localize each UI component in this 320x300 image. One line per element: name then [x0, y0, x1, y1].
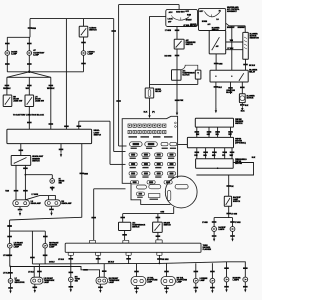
flasher box — [145, 88, 154, 98]
wire LF indicator ground — [8, 287, 13, 289]
connector tick — [212, 221, 217, 223]
wire LH headlamp ground — [18, 209, 23, 211]
svg-text:LAMP: LAMP — [11, 53, 17, 56]
connector tick — [77, 125, 82, 127]
svg-text:INDICATOR: INDICATOR — [15, 281, 26, 284]
wire fuse block bottom drop — [173, 207, 175, 214]
wire below courtesy lamp — [28, 55, 30, 72]
lamp RH tail stop turn — [161, 277, 176, 286]
connector tick — [8, 255, 13, 257]
wire wiper wires 1 — [196, 127, 198, 137]
wire washer return loop — [196, 163, 253, 176]
svg-text:WHT/BLK: WHT/BLK — [3, 88, 11, 90]
wire marker column — [9, 220, 11, 243]
connector tick — [27, 122, 32, 124]
svg-text:(P): (P) — [152, 112, 155, 114]
connector tab — [157, 252, 162, 255]
headlight dimmer switch — [11, 156, 31, 166]
wire lo beam — [15, 165, 17, 199]
ground license lamp — [195, 290, 197, 293]
connector tick — [91, 217, 96, 219]
connector tick — [7, 236, 12, 238]
svg-text:OFF: OFF — [199, 11, 202, 13]
fuse block slot A — [137, 185, 147, 189]
svg-text:SWITCH: SWITCH — [212, 29, 219, 31]
ignition switch box — [166, 9, 198, 26]
ground rear marker C — [244, 289, 246, 292]
connector tick — [5, 85, 10, 87]
ground backup LH — [213, 239, 215, 242]
wire park lamp feeds — [33, 267, 35, 278]
wire blower TAN — [226, 41, 243, 43]
svg-text:LAMP: LAMP — [177, 281, 183, 284]
wire ignition top feed — [178, 5, 180, 10]
wire ignition feed left — [150, 15, 166, 17]
wire wiper wires 2 — [196, 148, 198, 159]
wire fuse block bottom run — [123, 213, 174, 215]
connector tab — [90, 240, 96, 243]
wiper motor box — [187, 137, 233, 147]
fuse row 1 — [129, 153, 176, 159]
wire pressure switch down — [176, 49, 178, 114]
svg-text:LAMP: LAMP — [147, 281, 153, 284]
svg-text:MOTOR: MOTOR — [235, 163, 242, 165]
lamp cargo — [81, 51, 86, 56]
svg-text:ORN: ORN — [32, 28, 37, 30]
connector tick — [156, 217, 161, 219]
wire end arrow — [176, 113, 178, 116]
svg-text:LAMP: LAMP — [14, 246, 20, 249]
connector tick — [156, 235, 161, 237]
wire LH tail ground — [134, 288, 139, 290]
connector tick — [80, 173, 85, 175]
fuse block tab holes — [175, 122, 177, 124]
lamp rear marker B — [224, 277, 229, 282]
wire RH marker drop — [44, 231, 46, 243]
ground stub — [60, 154, 62, 157]
svg-text:FLASHER: FLASHER — [203, 248, 212, 251]
svg-text:GRN: GRN — [212, 155, 215, 157]
wire drop DK GRN — [158, 255, 160, 263]
svg-text:DK GRN: DK GRN — [165, 55, 172, 57]
wire below LH marker — [9, 248, 11, 267]
connector tick — [175, 55, 180, 57]
washer pump box — [196, 159, 234, 168]
wire AC compressor drop — [122, 214, 124, 223]
wire end arrow — [215, 110, 217, 113]
wire dome branch — [7, 36, 30, 38]
fuse block slot B — [149, 185, 161, 189]
connector tick — [28, 27, 33, 29]
node bus junction — [159, 263, 161, 265]
lamp LH front marker — [8, 243, 13, 248]
wire fuse block to wiper — [178, 144, 188, 146]
wire turn bus A — [32, 262, 226, 264]
svg-text:JAMB SW: JAMB SW — [13, 100, 22, 103]
ground rear marker B — [225, 289, 227, 292]
wire turn bus drop — [31, 231, 33, 264]
connector tick WHT/BLK — [27, 63, 32, 65]
connector tick — [23, 168, 28, 170]
svg-text:START: START — [186, 19, 193, 22]
ground backup RH — [231, 239, 233, 242]
AC pressure switch — [174, 39, 184, 49]
wire marker B ground — [224, 286, 229, 288]
wire cargo lamp down — [83, 55, 85, 72]
svg-text:RUN: RUN — [187, 14, 192, 16]
ground RH turn indicator — [70, 289, 72, 292]
svg-text:LAMPS: LAMPS — [218, 228, 225, 231]
lamp backup LH — [212, 227, 217, 232]
wire dome feed top — [30, 18, 114, 20]
switch cargo lamp — [79, 26, 88, 37]
ground blower motor — [241, 108, 243, 111]
ground RH tail lamp — [165, 291, 167, 294]
switch LH door jamb — [25, 95, 34, 107]
connector tick — [116, 100, 121, 102]
headlamp LH connector — [13, 200, 30, 207]
svg-text:LAMP: LAMP — [44, 281, 50, 284]
wire RH park ground — [98, 287, 103, 289]
wire compressor jumper — [181, 65, 198, 70]
connector tick — [69, 272, 74, 274]
fuse breaker labels — [129, 136, 173, 137]
lamp LH front park-turn — [31, 277, 43, 284]
svg-text:GRY: GRY — [207, 134, 210, 136]
wire LH park ground — [33, 287, 38, 289]
connector tick — [228, 87, 233, 89]
svg-text:SWITCH: SWITCH — [32, 160, 40, 162]
wire backup RH ground — [230, 235, 235, 237]
connector tick — [210, 271, 215, 273]
lamp LH tail stop turn — [131, 277, 146, 286]
node splice junction — [28, 71, 31, 74]
lamp RH turn indicator — [69, 277, 74, 282]
svg-text:WHT: WHT — [228, 134, 231, 136]
connector tab — [156, 240, 162, 243]
wire below dome lamp — [6, 55, 8, 72]
fuse maxi pills — [130, 142, 177, 149]
lamp courtesy — [27, 51, 32, 56]
wire tail feed to markers — [10, 217, 82, 220]
wire indicator ground — [50, 187, 55, 189]
connector tick — [43, 236, 48, 238]
svg-text:LT GRN: LT GRN — [231, 214, 238, 216]
connector tick — [7, 225, 12, 227]
svg-text:SWITCH: SWITCH — [94, 134, 102, 136]
fuse row 2 — [129, 162, 176, 168]
fuse row 4 — [131, 181, 173, 185]
svg-text:LT GRN: LT GRN — [32, 194, 39, 196]
fuse breaker row 1 — [128, 124, 166, 127]
wire switch feed loop — [78, 121, 80, 129]
svg-text:SWITCH: SWITCH — [235, 123, 243, 125]
wire hi beam — [24, 165, 26, 199]
svg-text:SWITCH: SWITCH — [186, 44, 194, 46]
wire park bus B — [11, 266, 100, 277]
wire jamb to headlight switch — [28, 107, 30, 130]
connector tick — [102, 270, 107, 272]
wire to RH jamb switch — [6, 77, 8, 95]
wire ORN main feed — [113, 19, 115, 152]
wire tail feed long — [81, 144, 83, 218]
svg-text:DK GRN: DK GRN — [162, 259, 169, 261]
connector tick — [64, 126, 69, 128]
fuse block outline — [122, 116, 177, 204]
svg-text:ASSEMBLY: ASSEMBLY — [227, 10, 238, 13]
connector tick — [8, 272, 13, 274]
svg-text:LT BLU: LT BLU — [227, 48, 234, 50]
wire compressor return — [197, 79, 199, 84]
wire RH turn indicator chain — [70, 255, 72, 277]
svg-text:(OPTIONAL): (OPTIONAL) — [235, 141, 246, 144]
svg-text:RESISTOR: RESISTOR — [250, 37, 260, 39]
lamp rear marker A — [210, 278, 215, 283]
headlight switch box — [7, 129, 92, 143]
connector tick WHT — [5, 63, 10, 65]
wire blower switch ORN — [215, 54, 217, 70]
fuse block column connector circle — [165, 176, 197, 208]
ignition switch arc — [173, 17, 189, 20]
AC compressor connector box — [119, 222, 131, 230]
lamp RH front marker — [43, 243, 48, 248]
compressor diode connector — [195, 70, 201, 79]
svg-text:WHT: WHT — [230, 155, 233, 157]
wire to LH jamb switch — [28, 77, 30, 95]
svg-text:ORN: ORN — [203, 155, 206, 157]
wire blower motor ground — [241, 103, 243, 105]
wire junction block stub — [230, 82, 232, 94]
wire to fuse row1 — [119, 145, 127, 147]
connector tab — [123, 240, 129, 243]
svg-text:LAMP: LAMP — [49, 246, 55, 249]
wire ignition to pressure switch — [176, 27, 178, 40]
lamp rear marker C — [243, 277, 248, 282]
wire cargo drop — [83, 19, 85, 27]
svg-text:CLUTCH: CLUTCH — [182, 74, 190, 76]
ground RH headlamp — [50, 213, 52, 216]
connector tick — [81, 42, 86, 44]
svg-text:JAMB SW: JAMB SW — [35, 100, 44, 103]
svg-text:RELAY: RELAY — [155, 90, 162, 93]
svg-text:SELECT: SELECT — [190, 24, 196, 26]
wire brn-wht to relay — [231, 26, 233, 71]
connector tick — [164, 271, 169, 273]
wire blower LT BLU — [226, 49, 243, 51]
wire to dimmer switch — [20, 144, 22, 156]
steering column connector pill — [175, 184, 188, 189]
connector tick — [240, 87, 245, 89]
svg-text:OFF: OFF — [168, 22, 171, 24]
svg-text:LAMP: LAMP — [200, 279, 206, 282]
svg-text:DK BLU: DK BLU — [249, 65, 256, 67]
wire backup down — [228, 206, 230, 217]
svg-text:RELAY: RELAY — [249, 71, 256, 74]
wire below brake switch — [157, 232, 159, 240]
ground LH tail lamp — [135, 291, 137, 294]
connector tick — [30, 257, 35, 259]
connector tick — [14, 190, 19, 192]
connector tab — [68, 252, 73, 255]
wire brn-wht to resistor — [244, 26, 246, 33]
connector tick — [37, 271, 42, 273]
connector tick — [122, 234, 127, 236]
connector tick — [96, 258, 101, 260]
connector tick — [175, 100, 180, 102]
svg-text:SWITCH: SWITCH — [89, 30, 97, 32]
svg-text:WHT/BLK: WHT/BLK — [47, 88, 55, 90]
fuse row 3 — [129, 172, 176, 178]
connector tick — [27, 85, 32, 87]
svg-text:LAMP: LAMP — [33, 54, 39, 57]
wire brake switch drop — [157, 214, 159, 223]
connector tick — [43, 255, 48, 257]
svg-text:TAN: TAN — [5, 190, 9, 193]
svg-text:LAMPS: LAMPS — [233, 278, 240, 281]
wire flasher down — [149, 98, 151, 115]
wire relay BLK down — [215, 82, 217, 110]
ground hi beam indicator — [51, 188, 53, 191]
svg-text:LAMP: LAMP — [109, 281, 115, 284]
lamp dome — [5, 51, 10, 56]
wire LF turn indicator drop — [10, 267, 12, 279]
wire marker A ground — [210, 287, 215, 289]
connector tick — [19, 150, 24, 152]
wire dome column to switch — [65, 19, 67, 130]
lamp backup RH — [230, 227, 235, 232]
ground rear marker A — [211, 290, 213, 293]
ground RH front park lamp — [99, 290, 101, 293]
lamp hi beam indicator — [50, 179, 55, 184]
svg-text:SWITCH: SWITCH — [233, 201, 241, 203]
blower relay box — [210, 70, 248, 82]
svg-text:BLOCK: BLOCK — [226, 92, 233, 94]
svg-text:WHT: WHT — [26, 88, 30, 90]
wire LH tail feed — [136, 264, 138, 277]
wire license ground — [194, 287, 199, 289]
blower switch box — [209, 31, 226, 54]
connector tick — [120, 217, 125, 219]
connector tick — [214, 86, 219, 88]
svg-text:NORM: NORM — [202, 21, 208, 23]
blower motor — [239, 94, 245, 103]
svg-text:SWITCH: SWITCH — [164, 225, 172, 227]
wire to hi beam indicator — [25, 174, 52, 176]
fuse puller — [149, 194, 160, 200]
wire courtesy bus — [7, 71, 83, 73]
wire RH park drop — [103, 264, 105, 277]
lamp RH front park-turn — [96, 277, 108, 284]
wire to blower motor — [241, 82, 243, 94]
svg-text:BLU: BLU — [216, 134, 219, 136]
svg-text:LOCK: LOCK — [168, 19, 174, 21]
wire cargo switch to lamp — [83, 37, 85, 51]
node hi beam junction — [25, 174, 27, 176]
wire battery feed down — [118, 5, 120, 146]
wire marker branch — [227, 262, 246, 277]
blower motor resistor — [243, 32, 249, 59]
connector tick — [175, 30, 180, 32]
ground LH headlamp — [19, 213, 21, 216]
connector tick — [224, 267, 229, 269]
svg-text:LT BLU: LT BLU — [58, 259, 65, 261]
headlamp RH connector — [45, 200, 61, 206]
svg-text:LT GRN: LT GRN — [202, 222, 207, 224]
svg-text:LT BLU: LT BLU — [3, 273, 10, 275]
connector tick — [230, 221, 235, 223]
svg-text:MOTOR: MOTOR — [247, 98, 254, 100]
wire marker branch — [10, 230, 46, 232]
wire end arrow — [148, 115, 150, 118]
connector tick — [59, 149, 64, 151]
wire RH tail ground — [164, 288, 169, 290]
svg-text:HEADLAMP: HEADLAMP — [61, 202, 72, 205]
switch RH door jamb — [3, 95, 12, 107]
wire backup split — [214, 217, 232, 219]
svg-text:LT BLU: LT BLU — [28, 272, 35, 274]
svg-text:LT BLU: LT BLU — [3, 255, 10, 257]
heater AC control box — [199, 9, 226, 31]
connector tick — [27, 43, 32, 45]
connector tick — [5, 43, 10, 45]
svg-text:BRN/WHT: BRN/WHT — [238, 27, 246, 29]
wire license feed — [195, 263, 197, 278]
svg-text:TO BATTERY JUNCTION BLOCK: TO BATTERY JUNCTION BLOCK — [13, 114, 44, 117]
svg-text:BULB TEST: BULB TEST — [176, 11, 185, 13]
backup lamp switch — [224, 196, 231, 206]
bulkhead connector — [65, 243, 201, 252]
wire battery feed top — [119, 4, 180, 6]
connector tick — [226, 213, 231, 215]
connector tick — [134, 271, 139, 273]
connector tab — [126, 252, 131, 255]
wire RH tail feed — [166, 263, 168, 276]
lamp license — [193, 278, 198, 283]
ground LF turn indicator — [9, 291, 11, 294]
wire park feed drop — [97, 255, 99, 263]
svg-text:18 BLU: 18 BLU — [49, 262, 55, 264]
wire marker C ground — [243, 286, 248, 288]
wire below AC box — [124, 231, 126, 241]
connector tick — [49, 123, 54, 125]
wire below RH marker — [44, 248, 46, 264]
connector tick — [157, 258, 162, 260]
ground LH front park lamp — [34, 290, 36, 293]
connector tick — [49, 85, 54, 87]
wire stub fuse — [60, 144, 62, 153]
connector tick — [69, 258, 74, 260]
connector tick — [194, 271, 199, 273]
wire resistor down — [245, 59, 247, 70]
svg-text:LT GRN: LT GRN — [165, 30, 172, 32]
connector tick — [226, 185, 231, 187]
wire marker A feed — [211, 263, 213, 278]
node washer junction — [217, 167, 219, 169]
svg-text:PPL: PPL — [222, 155, 225, 157]
wiper washer switch box — [195, 118, 233, 127]
svg-text:LT GRN: LT GRN — [235, 222, 240, 224]
svg-text:ACC: ACC — [169, 11, 174, 14]
wire crossover LT GRN — [25, 196, 55, 200]
wire RH ind ground — [69, 286, 74, 288]
fuse clock pill — [137, 192, 145, 198]
wire WHT/BLK to switch — [50, 77, 52, 129]
svg-text:SWITCH: SWITCH — [132, 227, 140, 229]
wire drop — [128, 255, 130, 263]
connector tick — [23, 190, 28, 192]
connector tick — [81, 63, 86, 65]
connector tick — [126, 258, 131, 260]
